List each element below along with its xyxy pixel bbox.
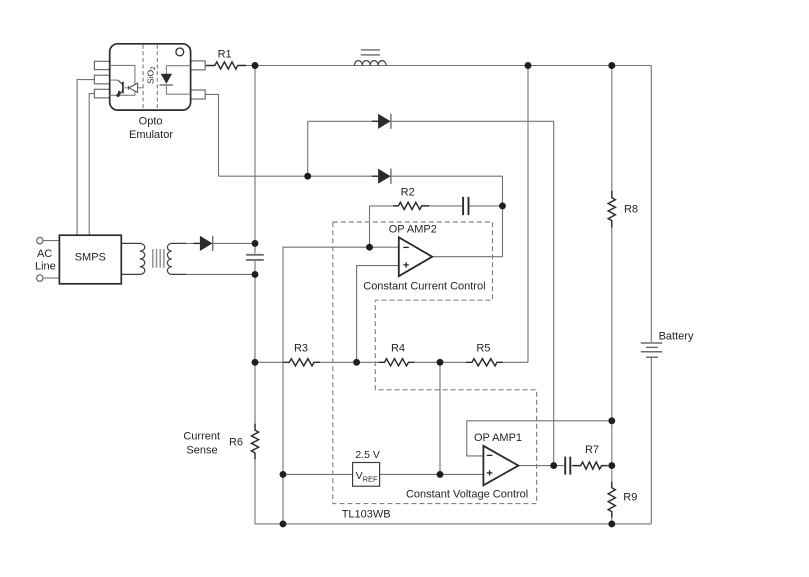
inductor L1 <box>354 50 386 66</box>
wire transformer secondary bottom to cap node <box>186 273 255 275</box>
opto emulator pin R1 <box>191 61 206 70</box>
opto internal wire pin2 <box>110 79 118 81</box>
wire x553.7 drop to OP AMP1 output <box>553 121 555 465</box>
node OP AMP1 output junction <box>550 462 557 469</box>
svg-text:SMPS: SMPS <box>75 252 106 264</box>
svg-text:R3: R3 <box>294 343 308 355</box>
wire diode row 2 y176 <box>219 175 503 177</box>
resistor R8 <box>608 191 615 228</box>
wire x528 rail <box>527 66 529 363</box>
svg-text:R9: R9 <box>623 492 637 504</box>
svg-text:Emulator: Emulator <box>129 129 173 141</box>
resistor R7 <box>573 462 608 469</box>
opto LED diode <box>160 74 173 85</box>
opto pin-1 index circle <box>176 48 184 56</box>
diode D1 (row 1) <box>372 114 391 129</box>
node R3 left junction <box>252 359 259 366</box>
battery <box>641 343 663 357</box>
capacitor C3 (filter cap) <box>246 255 264 260</box>
wire x611.8 rail <box>611 66 613 524</box>
node secondary bottom junction <box>252 271 259 278</box>
diode D2 (row 2) <box>372 169 391 184</box>
resistor R4 <box>379 359 415 366</box>
node R7 right junction <box>608 462 615 469</box>
AC terminal bottom <box>37 275 43 281</box>
AC terminal top <box>37 237 43 243</box>
svg-text:OP AMP2: OP AMP2 <box>389 223 437 235</box>
wire R3 R4 R5 row y362.3 <box>255 361 528 363</box>
svg-text:Opto: Opto <box>139 116 163 128</box>
resistor R6 <box>251 424 258 460</box>
diode D3 (secondary rectifier) <box>194 236 213 251</box>
resistor R3 <box>283 359 320 366</box>
svg-text:R6: R6 <box>229 437 243 449</box>
svg-text:TL103WB: TL103WB <box>342 509 391 521</box>
node secondary top junction <box>252 240 259 247</box>
wire bottom rail y524 <box>255 523 651 525</box>
wire R2 feedback row y206 <box>370 205 503 207</box>
svg-text:OP AMP1: OP AMP1 <box>474 432 522 444</box>
wire AC line terminals <box>43 241 59 279</box>
node bottom rail x283 <box>280 520 287 527</box>
SMPS box <box>59 235 121 284</box>
wire x283 rail with corner to OP AMP2 minus input <box>283 247 399 524</box>
svg-text:Sense: Sense <box>186 445 217 457</box>
opto emulator pin R2 <box>191 90 206 99</box>
svg-text:2.5 V: 2.5 V <box>355 449 380 461</box>
wire transformer secondary top to cap node <box>186 242 255 244</box>
resistor R2 <box>393 202 429 209</box>
svg-text:Current: Current <box>183 431 220 443</box>
wire SMPS riser to opto pin2 <box>77 80 94 236</box>
wire left rail x255 lower <box>254 261 256 524</box>
opto emulator body <box>110 44 191 110</box>
node VREF left junction <box>280 471 287 478</box>
node R1 output junction <box>252 62 259 69</box>
node R3 R4 junction <box>353 359 360 366</box>
svg-text:R4: R4 <box>391 343 405 355</box>
wire OP AMP2 output y256.7 <box>432 256 502 258</box>
opto phototransistor <box>116 80 123 97</box>
wire x440 drop <box>439 362 441 474</box>
opto LED vertical link <box>166 66 190 95</box>
node diode row 2 junction <box>304 173 311 180</box>
opto internal wire pin1 to pin3 loop <box>110 65 135 95</box>
resistor R5 <box>466 359 503 366</box>
svg-text:AC: AC <box>37 248 52 260</box>
opto emulator pin L3 <box>94 89 109 98</box>
node bottom rail R9 <box>608 520 615 527</box>
svg-text:R2: R2 <box>401 186 415 198</box>
svg-text:Constant Current Control: Constant Current Control <box>363 281 485 293</box>
node R4 R5 junction <box>437 359 444 366</box>
wire from opto pin to x218.5 drop <box>205 94 218 176</box>
wire feedback drop x369.5 <box>369 206 371 247</box>
wire SMPS riser to opto pin3 <box>89 94 94 236</box>
transformer core <box>153 249 164 268</box>
wire x502.5 drop <box>502 176 504 257</box>
svg-text:Battery: Battery <box>659 330 694 342</box>
node top rail / R8 rail <box>608 62 615 69</box>
wire OP AMP1 output y465.6 <box>518 465 611 467</box>
op-amp U1 OP AMP1 triangle <box>483 446 518 486</box>
TL103WB dashed package outline <box>333 222 537 504</box>
wire x307.7 link <box>307 121 309 176</box>
svg-text:Constant Voltage Control: Constant Voltage Control <box>406 489 528 501</box>
opto SiO2 barrier dashed lines <box>143 45 157 110</box>
wire OP AMP1 feedback loop <box>467 421 612 456</box>
transformer secondary winding <box>167 243 186 274</box>
op-amp U2 OP AMP2 triangle <box>399 237 432 276</box>
wire diode row 1 y121.3 <box>308 120 554 122</box>
VREF box <box>353 463 380 487</box>
svg-text:R5: R5 <box>476 343 490 355</box>
resistor R9 <box>608 482 615 518</box>
resistor R1 <box>206 62 246 69</box>
node top rail / x528 <box>525 62 532 69</box>
svg-text:R7: R7 <box>585 444 599 456</box>
wire battery rail x651.3 <box>650 66 652 524</box>
wire OP AMP2 plus input <box>357 266 399 363</box>
svg-text:R8: R8 <box>624 204 638 216</box>
capacitor C1 (R2 feedback) <box>463 197 468 215</box>
opto internal amplifier diode <box>123 83 143 92</box>
opto emulator pin L2 <box>94 75 109 84</box>
svg-text:R1: R1 <box>218 49 232 61</box>
wire VREF row y474.4 <box>283 473 483 475</box>
capacitor C2 (OP AMP1 output) <box>565 457 570 475</box>
node OP AMP2 minus input junction <box>366 244 373 251</box>
transformer primary winding <box>122 243 145 274</box>
wire top rail y65 <box>246 65 651 67</box>
node feedback to R8 rail junction <box>608 417 615 424</box>
node R2 cap feedback junction <box>499 202 506 209</box>
node VREF to op amp1 plus junction <box>437 471 444 478</box>
svg-text:Line: Line <box>35 260 56 272</box>
wire left rail x255 upper <box>254 66 256 254</box>
opto emulator pin L1 <box>94 61 109 69</box>
